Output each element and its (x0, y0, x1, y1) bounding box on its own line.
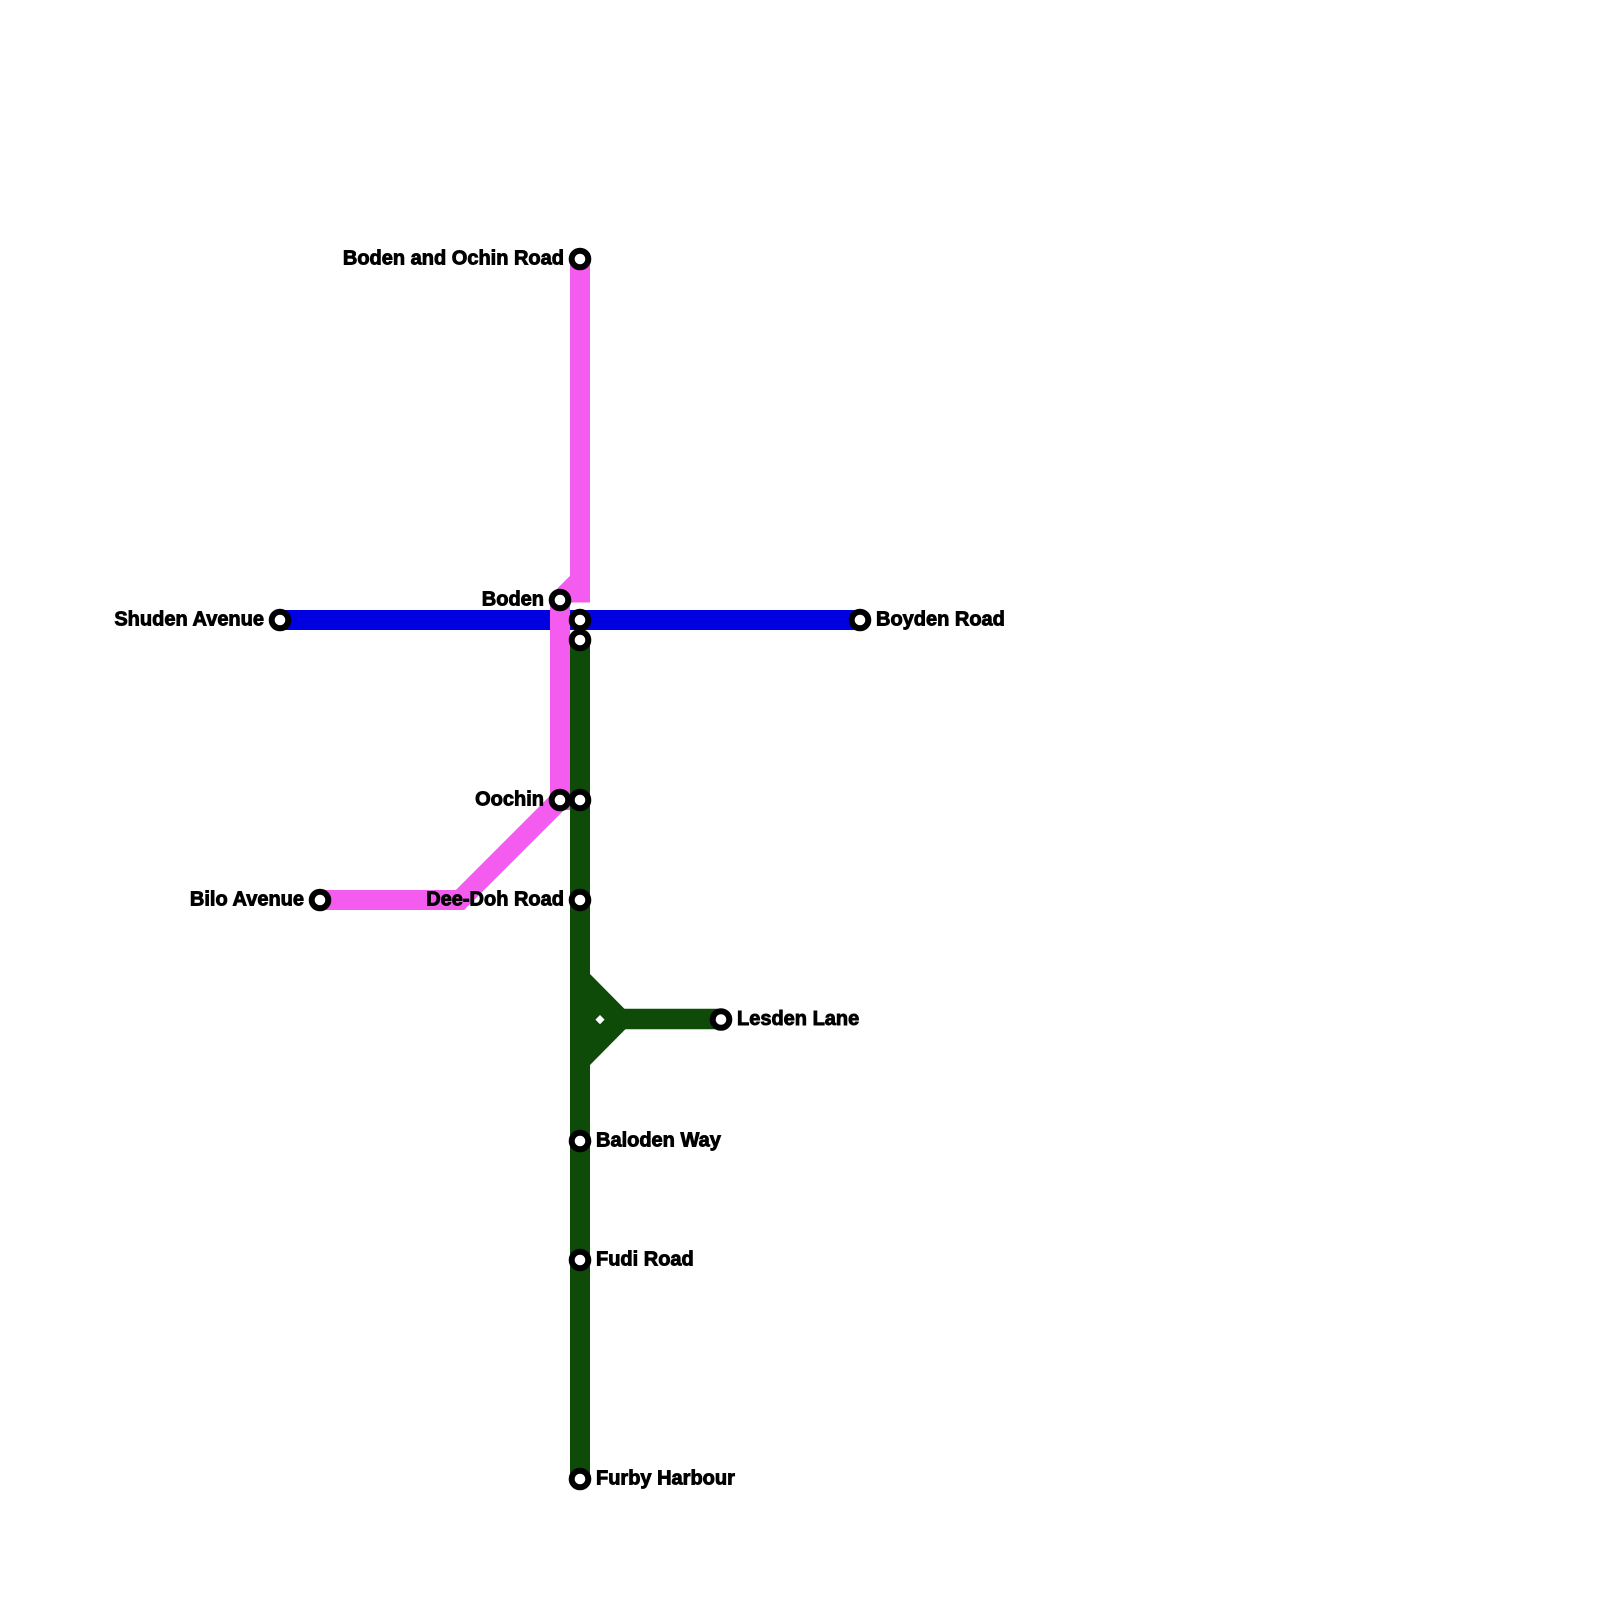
station Baloden Way (572, 1133, 589, 1150)
station Oochin pink (552, 792, 569, 809)
station Oochin green (572, 792, 589, 809)
svg-text:Lesden Lane: Lesden Lane (737, 1008, 859, 1030)
svg-text:Bilo Avenue: Bilo Avenue (190, 889, 304, 911)
station Boden (552, 592, 569, 609)
station Boyden Road (852, 612, 869, 629)
station Dee-Doh Road (572, 892, 589, 909)
svg-text:Boden: Boden (482, 589, 544, 611)
pink line segment Boden jog - Oochin (560, 580, 580, 810)
svg-text:Boden and Ochin Road: Boden and Ochin Road (343, 248, 564, 270)
station Shuden Avenue (272, 612, 289, 629)
svg-text:Dee-Doh Road: Dee-Doh Road (426, 889, 564, 911)
svg-text:Shuden Avenue: Shuden Avenue (114, 609, 264, 631)
green wye triangle junction (590, 974, 635, 1065)
station interchange green (572, 632, 589, 649)
svg-text:Fudi Road: Fudi Road (596, 1249, 694, 1271)
station Boden and Ochin Road (572, 251, 589, 268)
station Lesden Lane (713, 1011, 730, 1028)
green branch to Lesden Lane (620, 1009, 721, 1030)
svg-text:Boyden Road: Boyden Road (876, 609, 1005, 631)
station Fudi Road (572, 1252, 589, 1269)
svg-text:Furby Harbour: Furby Harbour (596, 1468, 735, 1490)
station Furby Harbour (572, 1471, 589, 1488)
svg-text:Baloden Way: Baloden Way (596, 1130, 722, 1152)
pink line segment Oochin - Dee-Doh bend - Bilo Avenue (320, 800, 560, 900)
station Bilo Avenue (312, 892, 329, 909)
pink line segment Boden and Ochin Road - Boden (vertical) (570, 259, 590, 603)
green line main trunk (570, 640, 590, 1480)
blue line Shuden Avenue - Boyden Road (280, 610, 860, 630)
svg-text:Oochin: Oochin (475, 789, 544, 811)
station interchange blue (572, 612, 589, 629)
white diamond junction marker (595, 1015, 604, 1024)
